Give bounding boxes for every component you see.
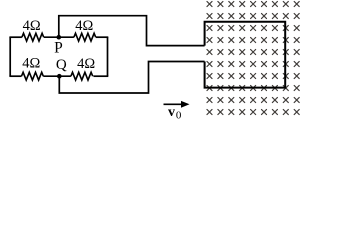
wire top lead from P to loop xyxy=(59,16,205,46)
resistor R2 4ohm top-right xyxy=(74,18,96,41)
wire bottom branch segments xyxy=(9,75,108,77)
wire bottom lead from Q to loop xyxy=(59,62,204,94)
magnetic field region B into page (x grid) xyxy=(207,1,299,114)
conducting loop in field (open at left between lead taps) xyxy=(205,22,286,88)
resistor R1 4ohm top-left xyxy=(22,18,44,41)
svg-text:4Ω: 4Ω xyxy=(22,56,40,72)
svg-text:Q: Q xyxy=(56,57,67,73)
svg-text:v: v xyxy=(168,105,175,120)
velocity arrow v0 xyxy=(164,101,190,122)
node P junction dot and label xyxy=(54,35,63,56)
svg-text:P: P xyxy=(54,39,63,56)
wire left vertical of resistor network xyxy=(9,37,11,76)
svg-text:0: 0 xyxy=(176,109,182,121)
svg-text:4Ω: 4Ω xyxy=(75,18,93,34)
svg-text:4Ω: 4Ω xyxy=(23,18,41,34)
wire top branch segments xyxy=(9,36,108,38)
wire right vertical of resistor network xyxy=(107,37,109,76)
node Q junction dot and label xyxy=(56,57,67,78)
resistor R3 4ohm bottom-left xyxy=(22,56,44,81)
resistor R4 4ohm bottom-right xyxy=(71,56,96,80)
svg-text:4Ω: 4Ω xyxy=(77,56,95,72)
